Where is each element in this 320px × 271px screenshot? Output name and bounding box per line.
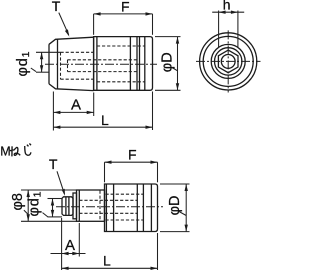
sleeve vertical 1 [78,190,80,221]
dimension phi d1 (bottom view) [27,191,44,217]
svg-text:φ8: φ8 [10,193,26,210]
cap ring vertical x=130.4 [129,37,131,91]
M thread outline [62,197,73,216]
outer circle [200,33,257,90]
sleeve section [77,190,105,221]
svg-text:A: A [71,97,81,114]
svg-text:T: T [49,156,58,172]
body outline (top view) [94,37,153,91]
inner circle [221,55,235,69]
svg-text:L: L [103,252,111,268]
hidden bore lines (bottom) [79,200,137,213]
body vertical x=151.4 [150,184,152,231]
thread chamfer line [57,39,59,89]
thread taper outline (top view) [49,37,94,90]
svg-text:F: F [121,0,130,14]
svg-text:T: T [52,0,61,14]
hidden bore lines (phi d1) [68,60,138,72]
hidden body cavity lines [97,46,145,82]
svg-text:F: F [128,146,137,162]
svg-text:A: A [65,237,75,254]
svg-text:L: L [101,112,109,128]
collar ring vertical x=139.5 [139,37,141,90]
kana ji [25,144,31,156]
svg-text:M: M [0,145,10,159]
hidden thread-root lines [61,52,94,79]
leader T (bottom view) [57,171,64,194]
flange [73,193,77,219]
body vertical x=137.3 [136,184,138,232]
collar ring vertical x=137 [136,37,138,91]
kana ne [10,146,20,156]
thread/body junction line [93,37,95,90]
body outline (bottom view) [105,184,158,232]
vertical centerline (front view) [227,30,229,92]
thread rib 1 [65,197,67,216]
second circle [203,36,253,86]
release collar vertical x=144.8 [144,37,146,90]
body vertical x=143.4 [142,184,144,231]
hex socket [218,50,238,73]
dimension phi D (bottom view) [167,196,183,216]
body inner left vertical [105,184,107,232]
thread rib 2 [68,197,70,216]
svg-text:φD: φD [160,52,176,72]
horizontal centerline (front view) [196,60,261,62]
third circle [211,44,245,78]
svg-text:h: h [223,0,231,13]
centerline (bottom view) [56,206,163,208]
sleeve hidden vertical [99,191,101,222]
dimension phi 8 (bottom view) [10,193,26,210]
leader T (top view) [59,13,69,35]
fourth circle [215,48,242,75]
hidden cavity lines (bottom) [106,194,144,220]
dimension phi d1 (top view) [15,51,32,77]
dimension phi D (top view) [160,52,176,72]
body vertical x=113.6 [113,184,115,232]
centerline (top view) [45,63,157,65]
body left inner vertical [96,37,98,91]
